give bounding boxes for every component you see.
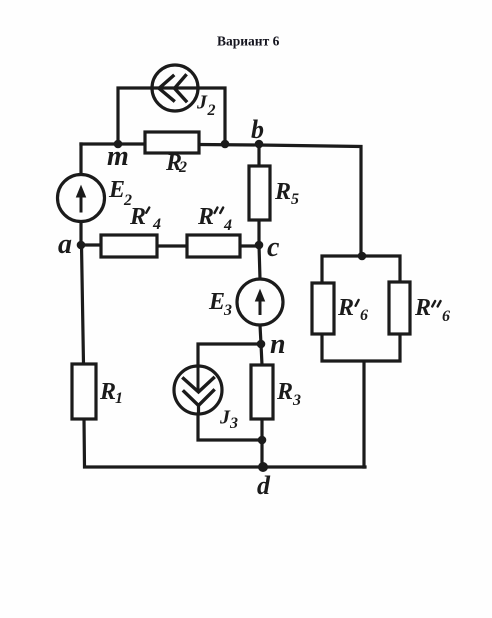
svg-text:4: 4 [223,217,232,234]
svg-text:R: R [414,295,431,321]
svg-text:E: E [208,289,225,315]
svg-text:R: R [337,295,354,321]
svg-text:a: a [58,229,72,260]
svg-text:6: 6 [360,307,368,324]
svg-text:3: 3 [292,392,301,409]
svg-text:R: R [99,379,116,405]
svg-text:m: m [107,141,129,172]
svg-text:E: E [108,177,125,203]
svg-text:d: d [257,471,271,500]
svg-text:6: 6 [442,308,450,325]
svg-text:c: c [267,232,280,263]
svg-text:3: 3 [223,302,232,319]
svg-text:n: n [270,329,286,360]
svg-text:2: 2 [207,102,216,119]
svg-text:R: R [129,204,146,230]
svg-text:R: R [274,179,291,205]
svg-text:J: J [196,92,208,114]
svg-text:R: R [197,204,214,230]
svg-text:Вариант 6: Вариант 6 [217,34,280,49]
svg-text:2: 2 [178,159,187,176]
svg-text:R: R [276,379,293,405]
svg-text:b: b [251,115,264,144]
svg-text:5: 5 [291,191,299,208]
svg-text:4: 4 [152,216,161,233]
svg-text:1: 1 [115,390,123,407]
svg-text:3: 3 [229,415,238,432]
